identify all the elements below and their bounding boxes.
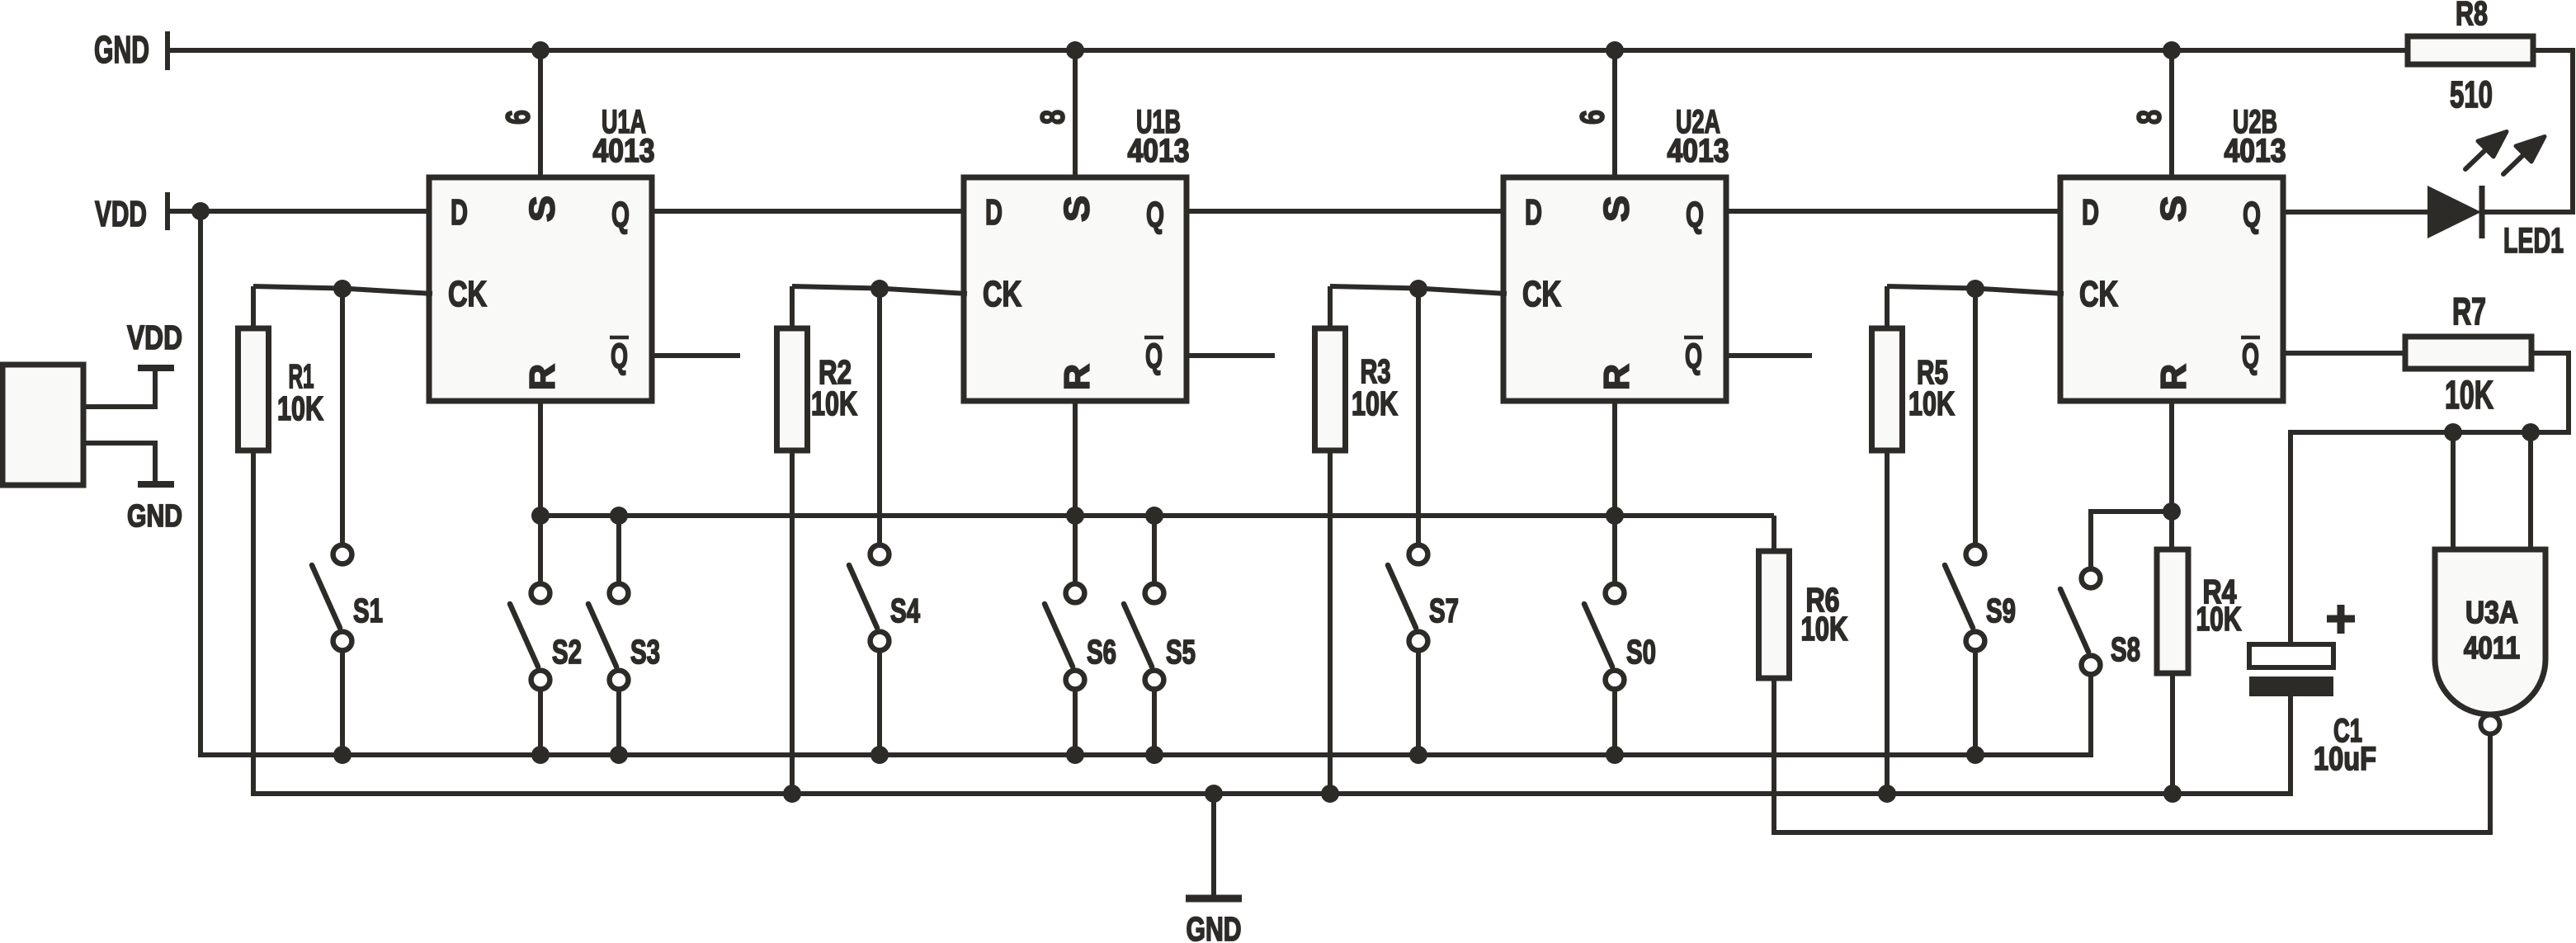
wire U1A Q to U1B D: [652, 209, 964, 214]
U2B S pin wire: [2169, 50, 2174, 177]
speaker VDD terminal wire: [83, 371, 155, 407]
flip-flop U1B body: [964, 177, 1187, 401]
resistor R1 body: [238, 328, 269, 450]
svg-text:10K: 10K: [2445, 373, 2493, 417]
node CK junction U2B: [1966, 280, 1984, 298]
svg-text:S: S: [522, 196, 562, 222]
svg-text:R7: R7: [2452, 290, 2486, 332]
svg-text:Q: Q: [611, 195, 630, 235]
switch S9 bottom contact: [1966, 632, 1985, 651]
node VDD return rail junction: [333, 746, 351, 764]
svg-text:S3: S3: [630, 633, 660, 671]
switch S3 lever: [588, 604, 616, 667]
node VDD return rail junction: [870, 746, 889, 764]
svg-text:Q: Q: [1145, 337, 1163, 376]
switch S5 lever: [1124, 604, 1152, 667]
U1A R pin wire: [538, 401, 543, 516]
svg-text:Q: Q: [1686, 195, 1704, 235]
node reset rail junction: [1606, 507, 1624, 525]
switch S2 lever: [510, 604, 538, 667]
resistor R8 body: [2408, 36, 2533, 64]
wire S7 to VDD return rail: [1416, 653, 1421, 755]
resistor R3 top lead: [1328, 286, 1333, 330]
wire S9 to VDD return rail: [1973, 653, 1978, 755]
piezo speaker body: [2, 365, 83, 485]
svg-text:10K: 10K: [1352, 384, 1398, 423]
node ground rail junction: [783, 785, 801, 803]
wire S4 to VDD return rail: [877, 653, 882, 755]
svg-text:D: D: [985, 191, 1003, 233]
R7 right lead wire: [2291, 353, 2569, 644]
wire S6 to VDD return rail: [1073, 691, 1078, 755]
svg-text:D: D: [451, 191, 468, 233]
resistor R5 body: [1872, 328, 1903, 450]
svg-text:D: D: [2082, 191, 2099, 233]
U1A S pin wire: [538, 50, 543, 177]
svg-text:4013: 4013: [2224, 132, 2286, 168]
U2A Qbar stub wire: [1726, 353, 1812, 358]
NAND input B wire: [2528, 432, 2533, 549]
U1A Qbar stub wire: [652, 353, 740, 358]
U2A S pin wire: [1612, 50, 1617, 177]
resistor R4 body: [2157, 549, 2188, 673]
switch S3 bottom contact: [610, 671, 629, 690]
resistor R2 bottom lead: [790, 450, 795, 794]
wire CK junction to S4: [877, 289, 882, 543]
svg-text:S: S: [2154, 196, 2193, 222]
svg-text:VDD: VDD: [95, 193, 147, 233]
svg-text:GND: GND: [94, 28, 149, 71]
flip-flop U2B body: [2060, 177, 2283, 401]
svg-text:Q: Q: [1685, 337, 1702, 376]
svg-text:S2: S2: [552, 633, 582, 671]
wire reset rail to S5: [1152, 516, 1157, 582]
switch S9 lever: [1945, 565, 1973, 628]
switch S1 lever: [312, 565, 340, 628]
svg-text:10K: 10K: [1908, 384, 1955, 423]
wire S1 to VDD return rail: [340, 653, 345, 755]
LED1 arrow 2: [2503, 154, 2524, 174]
node ground rail junction: [1321, 785, 1339, 803]
svg-text:4013: 4013: [1667, 132, 1729, 168]
svg-text:4013: 4013: [1127, 132, 1189, 168]
U1B S pin wire: [1073, 50, 1078, 177]
node VDD return rail junction: [1606, 746, 1624, 764]
switch S8 lever: [2060, 589, 2088, 652]
node CK junction U1B: [870, 280, 889, 298]
U1B R pin wire: [1073, 401, 1078, 516]
node GND-S junction U2B: [2163, 41, 2181, 59]
svg-text:S8: S8: [2111, 630, 2140, 668]
wire S5 to VDD return rail: [1152, 691, 1157, 755]
U2B Qbar wire to R7: [2283, 351, 2405, 356]
node CK junction U2A: [1409, 280, 1427, 298]
U2A R pin wire: [1612, 401, 1617, 516]
capacitor C1 bottom plate: [2249, 677, 2333, 696]
resistor R6 bottom lead: [1774, 678, 2490, 832]
node reset rail junction: [610, 507, 628, 525]
capacitor C1 plus sign: [2327, 615, 2355, 623]
switch S1 top contact: [333, 545, 352, 564]
flip-flop U1A body: [429, 177, 652, 401]
ground symbol stem: [1211, 794, 1216, 897]
node VDD return rail junction: [1145, 746, 1163, 764]
wire reset rail to S0: [1612, 516, 1617, 582]
switch S4 lever: [849, 565, 877, 628]
node NAND input B junction: [2522, 423, 2540, 441]
switch S2 top contact: [531, 584, 550, 603]
resistor R5 bottom lead: [1885, 450, 1890, 794]
resistor R7 body: [2405, 337, 2531, 369]
svg-text:S6: S6: [1087, 633, 1116, 671]
U1A CK wire: [253, 286, 432, 294]
node VDD return rail junction: [1066, 746, 1084, 764]
switch S7 bottom contact: [1409, 632, 1428, 651]
wire S2 to VDD return rail: [538, 691, 543, 755]
wire U2B Q to LED1 anode: [2283, 210, 2427, 215]
U2B R pin wire: [2169, 401, 2174, 549]
svg-text:10K: 10K: [277, 389, 323, 428]
wire U2A Q to U2B D: [1726, 209, 2060, 214]
switch S4 top contact: [870, 545, 889, 564]
node VDD return rail junction: [1409, 746, 1427, 764]
speaker GND symbol bar: [138, 481, 174, 488]
wire reset rail to S6: [1073, 516, 1078, 582]
svg-text:6: 6: [498, 110, 537, 125]
wire CK junction to S7: [1416, 289, 1421, 543]
svg-text:GND: GND: [1186, 909, 1241, 943]
node reset rail junction: [1145, 507, 1163, 525]
resistor R5 top lead: [1885, 286, 1890, 330]
node GND-S junction U1B: [1066, 41, 1084, 59]
switch S8 top contact: [2082, 569, 2101, 588]
LED1 cathode bar: [2479, 186, 2485, 238]
wire CK junction to S1: [340, 289, 345, 543]
wire S3 to VDD return rail: [616, 691, 621, 755]
node VDD return rail junction: [1966, 746, 1984, 764]
svg-text:10K: 10K: [1800, 610, 1848, 648]
svg-text:CK: CK: [1522, 274, 1561, 314]
ground return rail wire: [253, 450, 2291, 794]
switch S5 top contact: [1145, 584, 1164, 603]
reset rail wire: [540, 513, 1774, 518]
svg-text:S1: S1: [353, 592, 383, 629]
svg-text:Q: Q: [1146, 195, 1164, 235]
switch S2 bottom contact: [531, 671, 550, 690]
VDD wire to U1A D: [167, 209, 429, 214]
svg-text:R: R: [1058, 364, 1097, 390]
switch S7 top contact: [1409, 545, 1428, 564]
switch S9 top contact: [1966, 545, 1985, 564]
svg-text:6: 6: [1573, 110, 1611, 125]
svg-text:S: S: [1057, 196, 1097, 222]
node VDD return rail junction: [531, 746, 550, 764]
node reset rail junction: [1066, 507, 1084, 525]
node CK junction U1A: [333, 280, 351, 298]
LED1 triangle: [2427, 186, 2481, 238]
wire U1B Q to U2A D: [1187, 209, 1503, 214]
switch S0 bottom contact: [1606, 671, 1625, 690]
svg-text:LED1: LED1: [2503, 220, 2564, 260]
svg-text:S4: S4: [890, 592, 920, 629]
svg-text:10K: 10K: [2196, 599, 2242, 638]
node NAND input A junction: [2444, 423, 2462, 441]
svg-text:CK: CK: [983, 274, 1021, 314]
node VDD return rail junction: [610, 746, 628, 764]
switch S6 bottom contact: [1066, 671, 1085, 690]
wire S0 to VDD return rail: [1612, 691, 1617, 755]
node ground rail junction: [1205, 785, 1223, 803]
svg-text:10K: 10K: [811, 384, 857, 423]
svg-text:CK: CK: [2079, 274, 2118, 314]
node ground rail junction: [2163, 785, 2182, 803]
GND rail tick: [165, 31, 170, 70]
node U2B R junction: [2163, 502, 2181, 521]
resistor R3 body: [1315, 328, 1346, 450]
wire reset rail to S2: [538, 516, 543, 582]
node reset rail junction: [531, 507, 550, 525]
R8 right lead wire: [2484, 50, 2573, 212]
U2B CK wire: [1887, 286, 2064, 294]
svg-text:S7: S7: [1429, 592, 1459, 629]
svg-text:S0: S0: [1626, 633, 1656, 671]
svg-text:S: S: [1597, 196, 1636, 222]
capacitor C1 top plate: [2249, 644, 2333, 667]
GND rail wire: [167, 48, 2408, 53]
svg-text:4013: 4013: [592, 132, 654, 168]
svg-text:VDD: VDD: [127, 318, 182, 356]
U2A CK wire: [1330, 286, 1507, 294]
resistor R4 bottom lead: [2170, 673, 2175, 794]
U1B CK wire: [792, 286, 967, 294]
svg-text:D: D: [1525, 191, 1542, 233]
svg-text:R: R: [2154, 364, 2193, 390]
switch S0 lever: [1584, 604, 1612, 667]
svg-text:S9: S9: [1986, 592, 2016, 629]
resistor R6 top lead: [1772, 516, 1776, 551]
svg-text:4011: 4011: [2464, 630, 2520, 666]
switch S4 bottom contact: [870, 632, 889, 651]
svg-text:R8: R8: [2456, 0, 2488, 32]
svg-text:U3A: U3A: [2465, 595, 2518, 629]
VDD drop wire: [201, 211, 2091, 755]
node GND-S junction U1A: [531, 41, 550, 59]
switch S3 top contact: [610, 584, 629, 603]
LED1 arrow 1: [2465, 149, 2486, 169]
node VDD junction: [191, 202, 210, 220]
U3A inverter bubble: [2481, 715, 2500, 734]
svg-text:510: 510: [2450, 74, 2493, 116]
NAND input A wire: [2451, 432, 2456, 549]
switch S8 bottom contact: [2082, 656, 2101, 675]
svg-text:8: 8: [2130, 110, 2168, 125]
svg-text:Q: Q: [2243, 195, 2261, 235]
svg-text:Q: Q: [2242, 337, 2259, 376]
wire reset rail to S3: [616, 516, 621, 582]
svg-text:R: R: [1597, 364, 1636, 390]
flip-flop U2A body: [1503, 177, 1726, 401]
resistor R2 top lead: [790, 286, 795, 330]
speaker VDD symbol bar: [138, 365, 174, 371]
ground symbol bar: [1186, 895, 1242, 903]
switch S0 top contact: [1606, 584, 1625, 603]
speaker GND terminal wire: [83, 443, 155, 481]
nand gate U3A body: [2435, 549, 2545, 714]
svg-text:10uF: 10uF: [2314, 740, 2376, 777]
resistor R1 top lead: [251, 286, 256, 330]
svg-text:S5: S5: [1166, 633, 1196, 671]
switch S6 lever: [1045, 604, 1073, 667]
svg-text:Q: Q: [611, 337, 628, 376]
switch S1 bottom contact: [333, 632, 352, 651]
svg-text:CK: CK: [448, 274, 487, 314]
svg-text:8: 8: [1033, 110, 1072, 125]
U1B Qbar stub wire: [1187, 353, 1275, 358]
resistor R2 body: [777, 328, 808, 450]
resistor R6 body: [1759, 551, 1790, 678]
resistor R3 bottom lead: [1328, 450, 1333, 794]
switch S5 bottom contact: [1145, 671, 1164, 690]
node GND-S junction U2A: [1606, 41, 1624, 59]
svg-text:GND: GND: [127, 499, 182, 534]
wire CK junction to S9: [1973, 289, 1978, 543]
svg-text:R: R: [523, 364, 562, 390]
switch S7 lever: [1388, 565, 1416, 628]
VDD rail tick: [165, 192, 170, 230]
node ground rail junction: [1878, 785, 1896, 803]
switch S6 top contact: [1066, 584, 1085, 603]
S8 top jog wire: [2091, 512, 2172, 568]
